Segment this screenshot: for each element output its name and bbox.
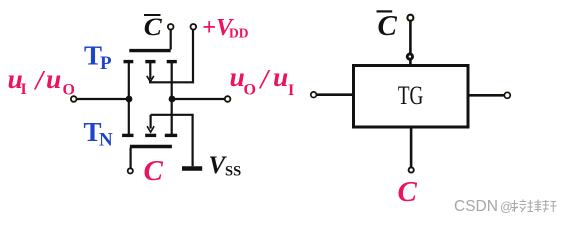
svg-text:N: N [99,130,113,151]
svg-text:I: I [288,82,294,99]
svg-text:u: u [46,63,61,94]
svg-text:P: P [100,53,112,74]
svg-text:O: O [244,82,256,99]
svg-text:DD: DD [229,26,249,41]
svg-text:u: u [230,61,245,92]
svg-text:TG: TG [398,81,424,110]
svg-text:C: C [378,10,398,42]
svg-text:C: C [398,176,418,208]
svg-text:u: u [273,61,288,92]
svg-text:O: O [63,82,75,99]
svg-text:CSDN: CSDN [454,198,498,215]
svg-text:C: C [144,155,164,187]
svg-text:I: I [21,81,27,98]
svg-text:SS: SS [225,164,241,180]
svg-text:@: @ [500,200,513,214]
svg-text:C: C [144,14,162,41]
